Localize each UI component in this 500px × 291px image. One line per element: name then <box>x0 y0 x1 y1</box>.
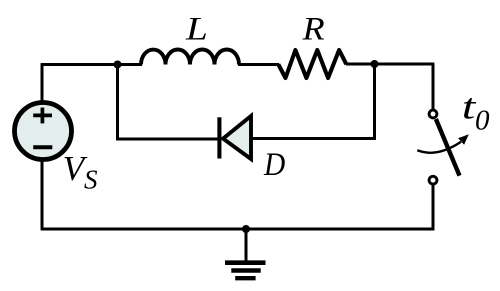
svg-text:L: L <box>185 10 208 46</box>
wire: bottom rail <box>41 228 435 231</box>
wire: diode branch left vertical drop <box>116 65 119 141</box>
wire: diode branch right horizontal <box>251 137 376 140</box>
wire: top rail between inductor and resistor <box>238 63 279 66</box>
wire: top-left vertical from source to top rail <box>41 65 44 104</box>
wire: diode branch right vertical rise <box>373 64 376 139</box>
diode D: triangle (anode, pointing left) <box>223 116 251 159</box>
switch: actuation arc arrow <box>417 142 461 153</box>
inductor L: four-hump coil <box>141 50 239 65</box>
node: junction dot at top-left (inductor/diode branch) <box>114 61 122 69</box>
ground: bar 2 <box>231 268 260 272</box>
svg-text:D: D <box>263 145 286 182</box>
switch: bottom terminal <box>429 176 437 184</box>
diode D: cathode bar <box>217 117 221 158</box>
ground: stub <box>245 229 248 261</box>
ground: bar 1 <box>225 260 266 265</box>
wire: right vertical from switch bottom terminal <box>432 185 435 231</box>
svg-text:S: S <box>84 165 98 195</box>
node: junction dot at top-right (resistor/diode branch) <box>371 60 379 68</box>
ground: bar 3 <box>235 276 255 280</box>
switch: top terminal <box>429 110 437 118</box>
wire: left vertical from source bottom <box>41 159 44 229</box>
svg-text:0: 0 <box>475 105 490 137</box>
switch: arrowhead <box>458 134 469 144</box>
svg-text:R: R <box>301 10 324 47</box>
voltage source VS: plus sign <box>33 108 52 124</box>
wire: top rail left segment <box>41 63 142 66</box>
resistor R: zigzag <box>278 50 346 78</box>
switch: blade <box>436 119 460 176</box>
node: junction dot at ground on bottom rail <box>242 225 250 233</box>
wire: diode branch left horizontal <box>116 138 218 141</box>
voltage source VS: minus sign <box>33 145 52 149</box>
voltage source VS: circle body <box>15 103 72 160</box>
wire: top rail right segment after resistor <box>346 63 434 66</box>
wire: right vertical to switch top terminal <box>432 64 435 110</box>
